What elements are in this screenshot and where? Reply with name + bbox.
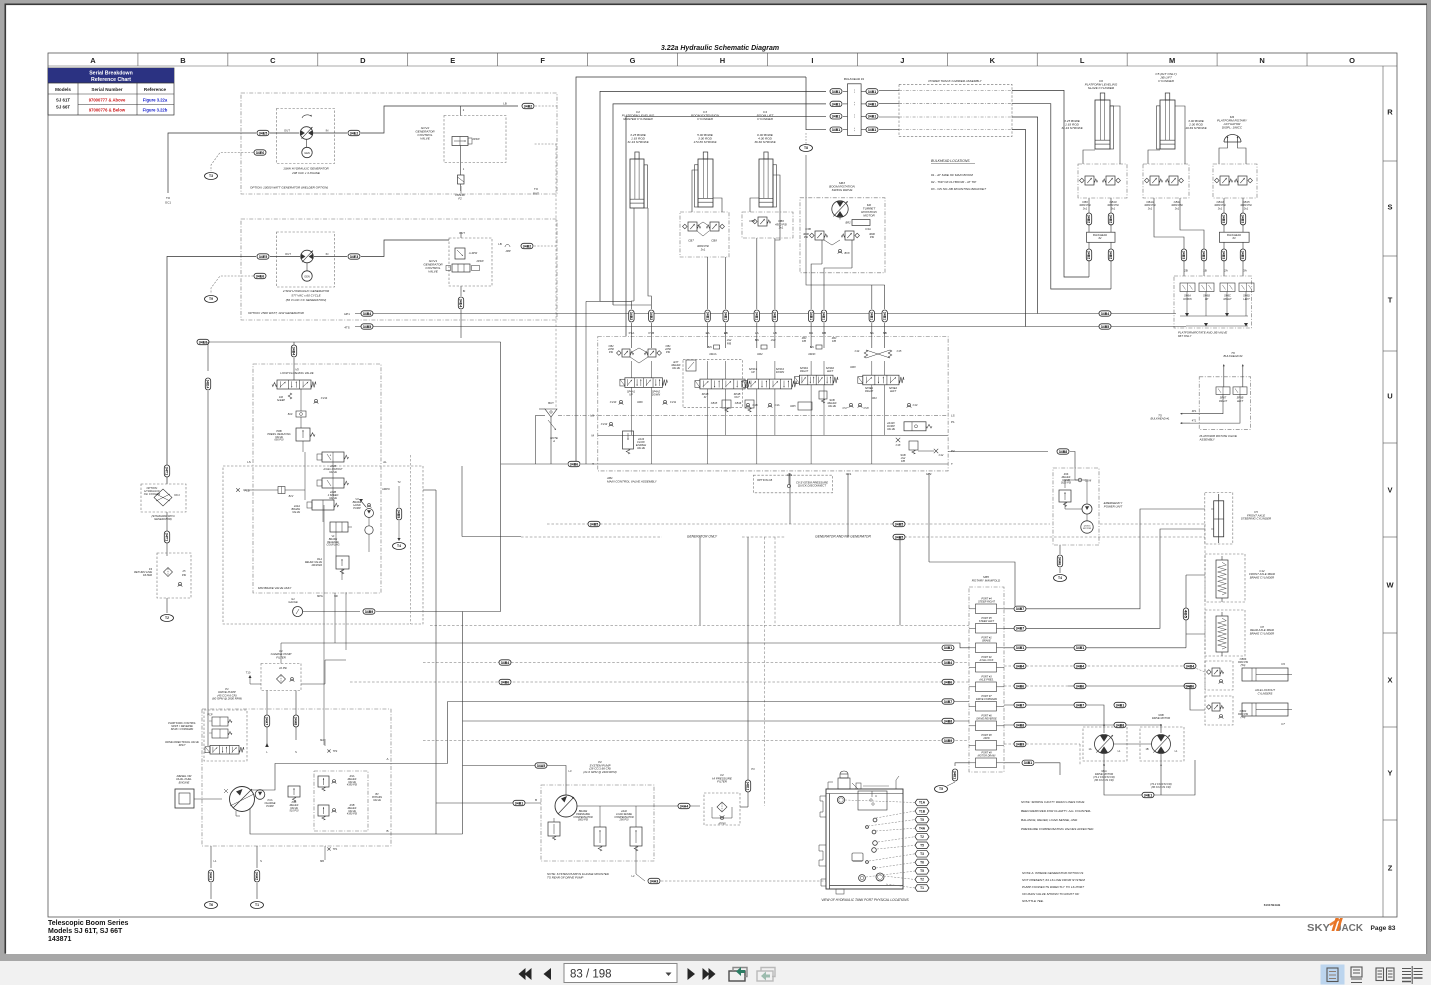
- cooler diamond: [154, 489, 172, 506]
- svg-text:ON MAIN VALVE SHOWN TO RIGHT O: ON MAIN VALVE SHOWN TO RIGHT OF: [1022, 892, 1080, 896]
- svg-text:C7: C7: [1281, 722, 1285, 726]
- svg-text:F2: F2: [458, 196, 462, 200]
- svg-text:FILTER: FILTER: [717, 780, 727, 784]
- svg-text:DR2: DR2: [757, 352, 763, 356]
- node 34E6: [254, 150, 266, 155]
- svg-text:C9: C9: [1281, 662, 1285, 666]
- svg-text:34B7: 34B7: [944, 700, 952, 704]
- svg-text:CV8: CV8: [863, 406, 869, 410]
- svg-text:3x1: 3x1: [1244, 206, 1249, 210]
- svg-text:34E4: 34E4: [459, 299, 463, 308]
- svg-text:OC1: OC1: [174, 493, 180, 497]
- main drive pump circle: [230, 787, 255, 812]
- toolbar page number box: [564, 964, 677, 983]
- hydraulic motor (gen 2): [301, 250, 314, 263]
- svg-text:34B2: 34B2: [524, 104, 532, 108]
- steer left line: [1004, 529, 1205, 628]
- svg-text:GENERATOR ONLY: GENERATOR ONLY: [687, 535, 718, 539]
- svg-text:U: U: [875, 795, 877, 798]
- svg-text:T: T: [1388, 296, 1393, 305]
- cbr feed links: [1190, 666, 1205, 672]
- svg-text:2.5kW HYDRAULIC GENERATOR: 2.5kW HYDRAULIC GENERATOR: [282, 289, 330, 293]
- svg-text:Telescopic Boom Series: Telescopic Boom Series: [48, 920, 129, 927]
- CB15 sub valve: [722, 400, 731, 408]
- wire A: [251, 764, 391, 791]
- svg-text:MOTOR: MOTOR: [863, 214, 875, 218]
- svg-text:2P4W: 2P4W: [475, 259, 484, 263]
- svg-text:C14: C14: [855, 349, 860, 353]
- svg-text:34E3: 34E3: [350, 255, 358, 259]
- wire gen1 out to GCV2: [361, 106, 518, 133]
- svg-text:T2: T2: [165, 616, 169, 620]
- generator and no generator label: [788, 531, 898, 539]
- svg-text:N: N: [1259, 56, 1264, 65]
- tank ports: [873, 818, 877, 822]
- svg-text:NOTE: SPRING CAVITY DRAIN LIN: NOTE: SPRING CAVITY DRAIN LINES HAVE: [1021, 800, 1085, 804]
- svg-text:CYLINDER: CYLINDER: [697, 117, 713, 121]
- svg-text:34B4: 34B4: [1101, 312, 1110, 316]
- LS gallery dash-dot: [598, 414, 948, 416]
- motor M1B: [1152, 735, 1171, 754]
- F1 top loop: [281, 643, 335, 664]
- T return vertical: [500, 342, 502, 612]
- svg-text:DR3C: DR3C: [808, 352, 815, 356]
- svg-text:3x1: 3x1: [779, 226, 784, 230]
- svg-text:E: E: [450, 56, 455, 65]
- tank tag T3: [205, 173, 218, 180]
- svg-text:IN: IN: [704, 395, 707, 399]
- GCV1 outlet: [460, 286, 462, 296]
- power track right elbows: [1012, 90, 1089, 277]
- node 34E1: [1142, 792, 1154, 797]
- svg-text:K: K: [990, 56, 996, 65]
- svg-text:MPG: MPG: [317, 595, 323, 598]
- svg-text:DOWN: DOWN: [1183, 297, 1191, 301]
- svg-text:FILTER: FILTER: [143, 573, 152, 577]
- svg-text:34E6: 34E6: [256, 151, 264, 155]
- node 34E3 gen2: [348, 254, 360, 259]
- svg-text:B: B: [180, 56, 186, 65]
- charge pump circle: [255, 790, 265, 800]
- svg-text:SP6D: SP6D: [1243, 294, 1250, 298]
- svg-text:DOWN: DOWN: [776, 370, 784, 374]
- platform rotate and jib valve block: [1174, 276, 1252, 328]
- pump B inlet: [436, 802, 541, 804]
- svg-text:T4: T4: [1058, 576, 1062, 580]
- tank callout tags: [915, 799, 929, 806]
- svg-text:CB15: CB15: [711, 401, 718, 405]
- svg-text:3A: 3A: [1243, 269, 1247, 273]
- emergency internal wires: [1075, 468, 1087, 504]
- svg-text:25: 25: [182, 569, 186, 573]
- svg-text:(5A): (5A): [1241, 664, 1246, 667]
- svg-text:34A6: 34A6: [1058, 557, 1062, 565]
- bulkhead #2: [1087, 232, 1115, 242]
- svg-text:Reference Chart: Reference Chart: [91, 77, 131, 83]
- axle lockout cylinder C9: [1242, 668, 1288, 681]
- hydraulic oil cooler box: [141, 484, 186, 512]
- svg-text:BULKHEAD LOCATIONS: BULKHEAD LOCATIONS: [931, 159, 970, 163]
- svg-text:34B2: 34B2: [649, 312, 653, 320]
- system pump box: [541, 785, 654, 861]
- svg-text:CB7: CB7: [688, 239, 694, 243]
- svg-text:OUT: OUT: [284, 129, 290, 133]
- svg-text:P1: P1: [951, 420, 955, 424]
- node 34B4 right: [1099, 311, 1111, 316]
- svg-text:T5: T5: [939, 787, 943, 791]
- svg-text:ENGINE: ENGINE: [179, 780, 190, 784]
- brake line: [335, 643, 969, 648]
- svg-text:34B1: 34B1: [809, 312, 813, 320]
- load sense compensator: [630, 827, 642, 846]
- svg-text:VALVE: VALVE: [672, 366, 680, 370]
- svg-text:Page 83: Page 83: [1371, 925, 1396, 932]
- dashed inner boundary: [410, 455, 412, 624]
- node 34A8: [293, 715, 298, 727]
- bulkhead 2 lower ovals: [1086, 249, 1091, 261]
- svg-text:FIB: FIB: [832, 340, 836, 343]
- svg-text:VALVE: VALVE: [887, 427, 895, 431]
- svg-text:34B5: 34B5: [363, 325, 371, 329]
- svg-text:I: I: [811, 56, 813, 65]
- C4 counterbalance valve block: [742, 212, 793, 238]
- svg-text:34A8: 34A8: [294, 717, 298, 725]
- svg-text:GAUGE: GAUGE: [288, 600, 298, 604]
- 2A4A brake valve: [312, 500, 334, 510]
- wire LS top elbows: [576, 77, 806, 464]
- loop flush feed verticals: [293, 342, 295, 346]
- tank tag T6: [205, 902, 218, 909]
- svg-text:QUICK DISCONNECT: QUICK DISCONNECT: [798, 484, 826, 488]
- PLB port: [236, 488, 240, 492]
- emergency pump circle: [1082, 504, 1092, 514]
- svg-text:34B4: 34B4: [292, 347, 296, 356]
- node 34A1: [208, 870, 213, 882]
- emergency feed from P2 port: [948, 451, 1048, 453]
- svg-text:S: S: [1387, 203, 1392, 212]
- svg-text:JMP: JMP: [505, 249, 510, 253]
- svg-text:(60 GPM @ 2600 RPM): (60 GPM @ 2600 RPM): [212, 697, 242, 701]
- svg-text:34B1: 34B1: [944, 646, 952, 650]
- svg-text:34B1: 34B1: [773, 312, 777, 320]
- node 34E6 gen2: [254, 273, 266, 278]
- svg-text:T1B: T1B: [919, 809, 926, 813]
- svg-text:DR4: DR4: [871, 396, 877, 400]
- pump internal lines: [577, 805, 700, 807]
- svg-text:CV14: CV14: [321, 396, 328, 400]
- svg-text:34B6: 34B6: [501, 680, 509, 684]
- svg-text:TO REAR OF DRIVE PUMP: TO REAR OF DRIVE PUMP: [547, 875, 583, 879]
- jib valve internal manifold lines: [1180, 315, 1248, 317]
- node 34B1 motor loop: [1114, 702, 1126, 707]
- svg-text:3x1: 3x1: [701, 247, 706, 251]
- svg-text:B/U: B/U: [708, 346, 712, 349]
- svg-text:VALVE: VALVE: [637, 446, 645, 450]
- svg-text:10 PSI: 10 PSI: [279, 666, 287, 670]
- svg-text:CYLINDER: CYLINDER: [1158, 79, 1174, 83]
- node 34A4 out: [678, 803, 690, 808]
- svg-text:3x1: 3x1: [1083, 206, 1088, 210]
- svg-text:IN: IN: [326, 252, 329, 256]
- svg-text:GLS: GLS: [846, 472, 852, 476]
- CBR4 valve: [1205, 696, 1233, 725]
- svg-text:3625 PSI: 3625 PSI: [1061, 482, 1072, 485]
- svg-text:B/U: B/U: [810, 346, 814, 349]
- C6 port ovals: [1086, 213, 1091, 225]
- svg-text:34B1: 34B1: [705, 312, 709, 320]
- node 34A3: [648, 878, 660, 883]
- svg-text:DRIVE REVERSE: DRIVE REVERSE: [976, 718, 997, 721]
- svg-text:4350 PSI: 4350 PSI: [347, 813, 358, 816]
- manifold throughlines: [969, 608, 976, 610]
- svg-text:#3 - ON NO-JIB MOUNTING BRACKE: #3 - ON NO-JIB MOUNTING BRACKET: [931, 187, 987, 191]
- svg-text:C13: C13: [913, 403, 918, 407]
- drive forward line: [448, 701, 970, 703]
- node 34B9 gauge line: [363, 609, 375, 614]
- svg-text:34B3: 34B3: [1202, 251, 1206, 259]
- svg-text:T3: T3: [209, 174, 213, 178]
- svg-text:CB6: CB6: [749, 219, 755, 223]
- svg-text:3x1: 3x1: [1111, 206, 1116, 210]
- motor drains: [1104, 754, 1195, 796]
- svg-text:T5: T5: [920, 869, 924, 873]
- svg-text:CB8: CB8: [711, 239, 717, 243]
- svg-text:IN: IN: [326, 129, 329, 133]
- toolbar next buttons: [688, 968, 716, 980]
- svg-text:T4: T4: [397, 544, 401, 548]
- svg-text:34B1: 34B1: [1024, 761, 1032, 765]
- svg-text:34B14: 34B14: [206, 380, 210, 389]
- emergency power unit box: [1053, 468, 1099, 545]
- svg-text:34B2: 34B2: [1087, 251, 1091, 259]
- generator only label: [664, 531, 740, 539]
- svg-text:SP6B: SP6B: [1203, 294, 1210, 298]
- svg-text:CV7: CV7: [842, 406, 848, 410]
- svg-text:34B1: 34B1: [515, 801, 523, 805]
- svg-text:T1A: T1A: [919, 801, 926, 805]
- svg-text:FIB: FIB: [901, 460, 905, 463]
- GCV2 valve element: [452, 137, 468, 146]
- spool 1 platform level section: [622, 349, 630, 357]
- svg-text:MOTOR DRAIN: MOTOR DRAIN: [978, 755, 996, 758]
- svg-text:PSI: PSI: [870, 235, 874, 239]
- spool 3 boom lift section: [761, 345, 767, 349]
- svg-text:C12: C12: [939, 453, 944, 457]
- flush relief: [288, 393, 292, 399]
- svg-text:C2V8: C2V8: [1085, 479, 1092, 483]
- svg-text:PSI: PSI: [609, 350, 613, 354]
- node 34E2: [348, 130, 360, 135]
- svg-text:DR1A: DR1A: [710, 352, 717, 356]
- CV13 + flow enable: [609, 422, 612, 425]
- svg-text:LS: LS: [951, 414, 955, 418]
- turret CB valves: [815, 231, 824, 240]
- node 34B14 vertical: [205, 378, 210, 390]
- svg-text:4P1: 4P1: [1192, 409, 1197, 413]
- svg-text:34B1: 34B1: [1016, 646, 1024, 650]
- svg-text:T1: T1: [920, 886, 924, 890]
- svg-text:T2: T2: [920, 835, 924, 839]
- svg-text:PUMP: PUMP: [353, 506, 361, 510]
- svg-text:GENERATOR AND NO GENERATOR: GENERATOR AND NO GENERATOR: [815, 535, 871, 539]
- C5 wires: [1148, 150, 1160, 164]
- svg-text:VALVE: VALVE: [828, 404, 836, 408]
- svg-text:C1A: C1A: [774, 403, 779, 407]
- svg-text:34T1: 34T1: [165, 533, 169, 541]
- svg-text:SJ 66T: SJ 66T: [56, 105, 70, 110]
- svg-text:208 VAC x 3 PHASE: 208 VAC x 3 PHASE: [291, 171, 321, 175]
- wire gen1 drain dashed: [211, 153, 254, 172]
- C6 CB block: [1078, 164, 1127, 198]
- svg-text:34B6: 34B6: [570, 462, 578, 466]
- svg-text:C15: C15: [897, 349, 902, 353]
- svg-text:AXLE LOCKOUT: AXLE LOCKOUT: [1254, 688, 1275, 692]
- svg-text:Y: Y: [1387, 769, 1392, 778]
- svg-text:PUMP: PUMP: [266, 804, 274, 808]
- svg-text:T6: T6: [209, 903, 213, 907]
- svg-text:GEN: GEN: [304, 274, 310, 278]
- svg-text:34B2: 34B2: [629, 312, 633, 320]
- 2A4B 2-speed valve: [322, 478, 344, 488]
- svg-text:24PD: 24PD: [982, 737, 989, 740]
- svg-text:B10: B10: [288, 413, 293, 416]
- svg-text:34B1: 34B1: [723, 312, 727, 320]
- svg-text:(21.6 GPM @ 2400 RPM): (21.6 GPM @ 2400 RPM): [583, 770, 616, 774]
- toolbar first-page button: [519, 968, 552, 980]
- svg-text:510 PSI: 510 PSI: [290, 810, 299, 813]
- 12VDC motor: [1081, 521, 1093, 533]
- svg-text:GEN: GEN: [304, 151, 310, 155]
- svg-text:34B1: 34B1: [754, 312, 758, 320]
- svg-text:PSI: PSI: [666, 350, 670, 354]
- wires gen2 motor: [270, 256, 300, 258]
- node 34B4 vertical mid: [291, 345, 296, 357]
- svg-text:GENERATOR): GENERATOR): [154, 517, 172, 521]
- svg-text:34B1: 34B1: [832, 102, 840, 106]
- svg-text:19.69 STROKE: 19.69 STROKE: [1185, 126, 1207, 130]
- svg-text:1B: 1B: [1145, 748, 1148, 751]
- bypass valve assembly: [314, 771, 368, 831]
- svg-text:T9: T9: [209, 297, 213, 301]
- svg-text:34B2: 34B2: [523, 244, 531, 248]
- PCP control box: [204, 710, 247, 761]
- svg-text:CYLINDERS: CYLINDERS: [1258, 692, 1273, 696]
- M4 wires: [1219, 142, 1228, 164]
- node 34B5 right: [1099, 324, 1111, 329]
- svg-text:LS: LS: [247, 460, 251, 464]
- svg-text:BEEN REMOVED FOR CLARITY. ALL: BEEN REMOVED FOR CLARITY. ALL COUNTER-: [1021, 809, 1091, 813]
- tank top fittings: [838, 778, 850, 789]
- svg-text:4TS: 4TS: [344, 326, 349, 330]
- svg-text:STEERING CYLINDER: STEERING CYLINDER: [1241, 517, 1271, 521]
- svg-text:34B3: 34B3: [1222, 251, 1226, 259]
- svg-text:LEFT: LEFT: [1243, 297, 1250, 301]
- svg-text:SJ 61T: SJ 61T: [56, 98, 70, 103]
- LS control valve: [548, 822, 560, 836]
- svg-text:O: O: [1349, 56, 1355, 65]
- svg-text:T1: T1: [255, 903, 259, 907]
- svg-text:TP1: TP1: [333, 848, 338, 851]
- mid verticals ABV to trunks: [789, 473, 791, 524]
- C3 counterbalance valve block: [680, 212, 729, 257]
- svg-text:34B1: 34B1: [882, 312, 886, 320]
- svg-text:34T1: 34T1: [165, 467, 169, 475]
- svg-text:S: S: [260, 859, 262, 863]
- svg-text:B: B: [535, 798, 537, 802]
- svg-text:LEFT: LEFT: [827, 369, 834, 373]
- svg-text:UP: UP: [751, 370, 755, 374]
- svg-text:M: M: [1169, 56, 1175, 65]
- svg-text:290 PSI: 290 PSI: [619, 819, 629, 822]
- svg-text:A: A: [90, 56, 96, 65]
- svg-text:34B1: 34B1: [832, 128, 840, 132]
- GP2 to steer feed: [929, 562, 1015, 606]
- node 34B6 on T line: [568, 461, 580, 466]
- svg-text:1A: 1A: [1088, 748, 1091, 751]
- svg-text:BR2: BR2: [845, 221, 851, 225]
- DR5 + sub relief: [798, 402, 812, 410]
- axle pres dashed line: [350, 681, 969, 683]
- svg-text:C3A: C3A: [865, 227, 871, 231]
- svg-text:LS2: LS2: [727, 338, 732, 342]
- svg-text:Figure 3.22b: Figure 3.22b: [143, 108, 168, 113]
- manifold bottom drain: [955, 763, 969, 766]
- hand pump drain: [398, 497, 400, 507]
- bulkhead A1 port ovals: [830, 89, 842, 94]
- svg-text:RIGHT: RIGHT: [1223, 297, 1231, 301]
- svg-text:1B: 1B: [1203, 269, 1207, 273]
- svg-text:34B5: 34B5: [1101, 325, 1109, 329]
- svg-text:ROTARY MANIFOLD: ROTARY MANIFOLD: [972, 578, 1001, 582]
- GCV2 outlet w/ orifice: [460, 146, 462, 176]
- svg-text:ASSEMBLY: ASSEMBLY: [1199, 437, 1216, 441]
- svg-text:34E5: 34E5: [259, 131, 267, 135]
- svg-text:34B3: 34B3: [1182, 251, 1186, 259]
- tank left brackets: [820, 796, 826, 817]
- svg-text:COUPLING: COUPLING: [326, 544, 339, 547]
- svg-text:Models: Models: [55, 87, 71, 92]
- svg-text:34B1: 34B1: [868, 90, 876, 94]
- svg-text:34A3: 34A3: [650, 879, 658, 883]
- svg-text:T5: T5: [920, 818, 924, 822]
- C5 lower ovals: [1181, 249, 1186, 261]
- svg-text:VALVE: VALVE: [373, 799, 381, 802]
- svg-text:DR6: DR6: [637, 400, 643, 404]
- filter out vertical: [740, 806, 748, 808]
- svg-text:W: W: [1386, 581, 1394, 590]
- shuttle pilot dashed: [555, 144, 557, 408]
- svg-text:CV11: CV11: [670, 400, 677, 404]
- svg-text:34B1: 34B1: [868, 115, 876, 119]
- svg-text:DOWN: DOWN: [652, 392, 660, 396]
- bulkhead 3 lower ovals: [1221, 249, 1226, 261]
- node 4TS jib return: [361, 324, 373, 329]
- svg-text:SWING DRIVE: SWING DRIVE: [832, 188, 854, 192]
- svg-text:34A2: 34A2: [255, 872, 259, 880]
- wire gen1 to TO GC1: [168, 133, 256, 193]
- CBR6 valve: [1205, 661, 1233, 690]
- svg-text:GC1: GC1: [165, 201, 172, 205]
- L2 drain: [636, 846, 645, 881]
- node 34E8: [197, 339, 209, 344]
- R16 relief: [1059, 490, 1071, 502]
- svg-text:TP2: TP2: [333, 750, 338, 753]
- M2 turret rotation motor: [832, 201, 848, 217]
- svg-text:X: X: [1387, 676, 1392, 685]
- svg-text:T6: T6: [920, 861, 924, 865]
- svg-text:34B4: 34B4: [1076, 664, 1085, 668]
- CV14 check: [314, 399, 317, 402]
